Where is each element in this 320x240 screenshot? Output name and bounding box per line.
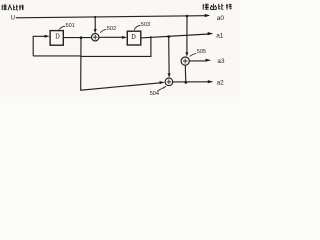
node junction on U line above 505: [186, 15, 189, 18]
label 输入比特 (input bits) fake CJK glyphs: [2, 5, 24, 11]
wire: junction D up into XOR 505 bottom: [184, 65, 187, 82]
output labels a0 a1 a3 a2: [216, 15, 225, 87]
leader 504: [157, 86, 166, 91]
svg-text:502: 502: [107, 26, 116, 32]
svg-text:a0: a0: [217, 15, 225, 22]
wire: XOR 504 output to a2 arrow: [173, 81, 209, 83]
wire: D501 output to XOR 502: [63, 37, 91, 39]
input node U: [11, 16, 15, 22]
wire: XOR 505 output to a3 arrow: [189, 60, 206, 62]
wire: D503 output line to a1 arrow: [141, 34, 209, 38]
node junction dot B (feedback takeoff): [150, 36, 152, 38]
wire: U main horizontal line to a0: [16, 16, 206, 18]
svg-text:U: U: [11, 16, 15, 22]
node junction dot D (a2 line to 505): [184, 81, 187, 84]
node junction dot C (to XOR 504): [167, 35, 170, 38]
wire: junction A down to 504 input line: [81, 38, 161, 90]
arrow a0: [205, 14, 211, 17]
svg-text:505: 505: [197, 49, 206, 55]
D flip-flop 501: [50, 31, 63, 46]
svg-text:504: 504: [150, 91, 159, 97]
wire: feedback from 503 output down and left to D501 input: [33, 37, 151, 56]
XOR adder 502: [92, 34, 99, 41]
leader 501: [59, 26, 65, 30]
svg-text:501: 501: [66, 23, 75, 29]
wire: XOR 502 output to D 503: [99, 36, 123, 38]
D flip-flop 503: [127, 31, 141, 45]
svg-text:503: 503: [141, 22, 150, 28]
svg-text:D: D: [55, 32, 60, 41]
node junction on U line above 502: [94, 16, 96, 18]
svg-text:a2: a2: [217, 79, 225, 86]
arrow a2: [208, 80, 214, 83]
node junction dot A (501 output): [80, 36, 83, 39]
label 501: [66, 23, 75, 29]
leader 505: [190, 53, 197, 56]
wire: junction C down into XOR 504: [168, 37, 170, 74]
label 输出比特 (output bits) fake CJK glyphs: [203, 4, 232, 10]
leader 502: [100, 29, 106, 32]
svg-text:a1: a1: [216, 33, 224, 40]
background paper: [0, 0, 240, 97]
XOR adder 505: [181, 57, 189, 65]
svg-text:a3: a3: [217, 58, 225, 65]
XOR adder 504: [165, 78, 173, 86]
leader 503: [134, 25, 140, 30]
svg-text:D: D: [131, 32, 136, 41]
label 502: [107, 26, 116, 32]
label 505: [197, 49, 206, 55]
arrow a3: [206, 59, 212, 62]
wire: vertical from U line down into XOR 502: [94, 17, 96, 30]
wire: feedback left loop into D 501: [33, 36, 45, 56]
wire: vertical from U line down into XOR 505: [186, 16, 188, 52]
label 504: [150, 91, 159, 97]
arrow a1: [208, 32, 214, 35]
label 503: [141, 22, 150, 28]
